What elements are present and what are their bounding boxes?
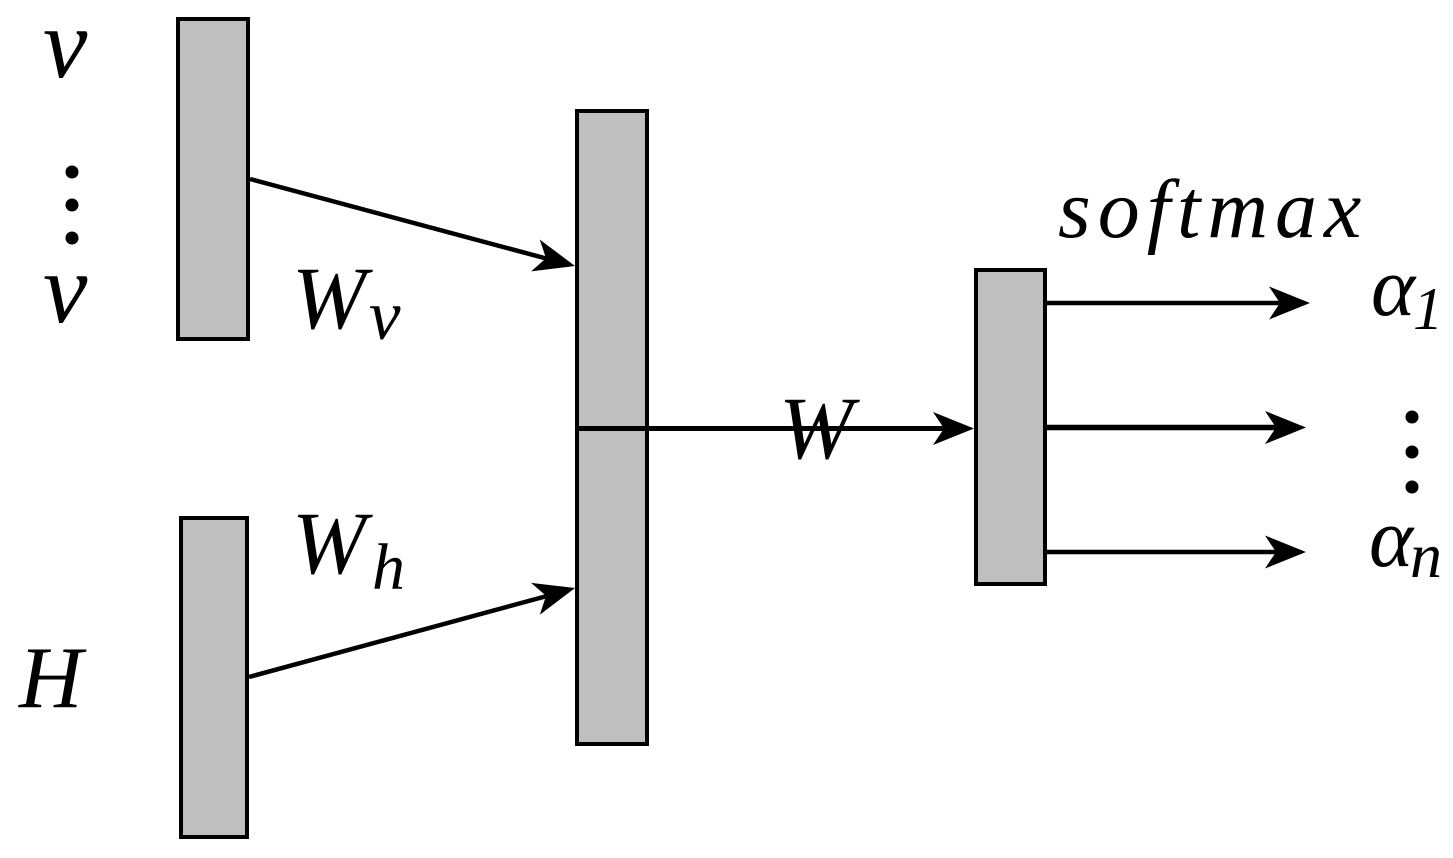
svg-text:W: W	[292, 250, 373, 348]
svg-text:v: v	[43, 0, 88, 99]
svg-text:h: h	[372, 531, 405, 604]
svg-text:W: W	[779, 380, 860, 478]
svg-text:v: v	[369, 277, 401, 355]
svg-text:α: α	[1369, 492, 1415, 585]
svg-text:v: v	[43, 233, 88, 344]
svg-text:1: 1	[1413, 276, 1443, 342]
svg-text:α: α	[1371, 241, 1417, 334]
svg-text:H: H	[18, 630, 87, 727]
svg-text:n: n	[1410, 520, 1442, 591]
svg-text:softmax: softmax	[1058, 163, 1368, 256]
svg-text:W: W	[292, 495, 373, 593]
